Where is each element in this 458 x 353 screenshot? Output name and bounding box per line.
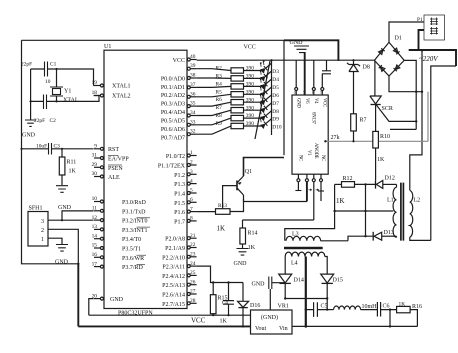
svg-text:RST: RST: [108, 147, 119, 153]
VCC label bottom: [191, 317, 206, 325]
pin 31 stub: [92, 153, 104, 160]
svg-text:R9: R9: [216, 121, 223, 127]
svg-text:P2.6/A14: P2.6/A14: [162, 293, 185, 299]
svg-text:1K: 1K: [248, 245, 256, 251]
svg-text:P0.3/AD3: P0.3/AD3: [161, 102, 185, 108]
svg-text:P2.2/A10: P2.2/A10: [162, 255, 185, 261]
resistor R15: [210, 283, 229, 325]
resistor R11: [59, 149, 76, 185]
svg-text:VCC: VCC: [173, 58, 185, 64]
wire SFH1 pin2 down: [48, 229, 80, 265]
svg-text:R4: R4: [216, 81, 223, 87]
svg-text:22pF: 22pF: [34, 118, 45, 124]
pin 19 stub: [92, 80, 104, 87]
svg-text:390: 390: [246, 74, 254, 80]
svg-text:V1: V1: [306, 150, 311, 156]
pin 26 stub: [187, 279, 196, 286]
transformer L4 secondary winding: [285, 252, 325, 266]
node crystal top junction: [55, 68, 57, 70]
svg-text:R7: R7: [360, 118, 367, 124]
pin 38 stub: [187, 73, 196, 80]
svg-text:P2.0/A8: P2.0/A8: [165, 237, 185, 243]
pin 28 stub: [187, 298, 196, 305]
svg-text:390: 390: [246, 121, 254, 127]
wire oscillator ground rail: [30, 69, 32, 120]
svg-text:P1.7: P1.7: [174, 219, 185, 225]
svg-text:Vin: Vin: [279, 326, 288, 332]
wire bridge right vertex drop: [390, 60, 417, 129]
svg-text:GND: GND: [295, 98, 300, 108]
svg-text:10: 10: [92, 196, 98, 202]
resistor R6 390: [216, 97, 255, 105]
svg-text:R11: R11: [67, 160, 77, 166]
ground opto top: [290, 40, 310, 53]
top edge thick continuation to bridge rail: [284, 40, 338, 61]
pin 4 opto stub NC: [318, 174, 324, 201]
polarity marks opto pins: [309, 189, 319, 191]
svg-text:P1.3: P1.3: [174, 182, 185, 188]
wire P0.1 row: [197, 77, 262, 79]
svg-text:1K: 1K: [217, 225, 226, 233]
svg-text:P3.2/INT0: P3.2/INT0: [122, 219, 148, 225]
pin 11 stub: [92, 206, 104, 213]
pin 34 stub: [187, 110, 196, 117]
pin 16 stub: [92, 252, 104, 259]
svg-text:19: 19: [92, 80, 98, 86]
pin 5 opto stub: [321, 74, 324, 95]
svg-text:D4: D4: [272, 77, 279, 83]
svg-text:D16: D16: [250, 303, 260, 309]
capacitor bypass at pin5: [322, 60, 331, 74]
pin 22 stub: [187, 242, 196, 249]
svg-text:10uF: 10uF: [36, 143, 47, 149]
svg-text:P1.5: P1.5: [174, 201, 185, 207]
svg-text:6N137: 6N137: [311, 112, 316, 124]
svg-text:35: 35: [190, 101, 196, 107]
pin 14 stub: [92, 233, 104, 240]
svg-text:D6: D6: [272, 93, 279, 99]
svg-text:Y1: Y1: [64, 89, 71, 95]
svg-text:R10: R10: [380, 134, 390, 140]
svg-text:R7: R7: [216, 105, 223, 111]
transformer L3 feed winding: [286, 232, 348, 241]
svg-text:31: 31: [92, 153, 98, 159]
svg-text:R3: R3: [216, 73, 223, 79]
svg-text:XTAL: XTAL: [63, 98, 79, 104]
svg-text:VCC: VCC: [191, 317, 206, 325]
resistor R7: [351, 114, 367, 142]
svg-text:22: 22: [190, 242, 196, 248]
resistor R2 390: [216, 66, 255, 74]
pin 32 stub: [187, 129, 196, 136]
resistor R9 390: [216, 121, 255, 129]
wire AC 220V rail thick: [409, 50, 456, 66]
diode D15: [321, 274, 343, 310]
node crystal bottom junction: [55, 100, 57, 102]
svg-text:ALE: ALE: [108, 175, 120, 181]
diode D12: [376, 176, 397, 189]
pin 1 stub: [187, 150, 196, 157]
capacitor C6: [377, 302, 396, 317]
wire centre tap L1: [333, 210, 393, 212]
svg-text:L2: L2: [414, 198, 421, 204]
svg-text:L1: L1: [387, 198, 394, 204]
wire L4 left to D14: [284, 257, 286, 275]
wire grey rail up link: [427, 92, 429, 142]
svg-text:1K: 1K: [220, 319, 228, 325]
pin 3 stub: [187, 169, 196, 176]
svg-text:24: 24: [190, 261, 196, 267]
wire MCU pin20 to VCC rail: [89, 299, 94, 316]
svg-text:40: 40: [190, 54, 196, 60]
svg-text:36: 36: [190, 91, 196, 97]
transistor Q1: [237, 169, 252, 195]
svg-text:R2: R2: [216, 66, 223, 72]
svg-text:8: 8: [190, 216, 193, 222]
svg-text:VCC: VCC: [244, 45, 256, 51]
svg-text:P1.4: P1.4: [174, 192, 185, 198]
wire AC live drop to transformer: [410, 49, 423, 190]
svg-text:13: 13: [92, 224, 98, 230]
pin 36 stub: [187, 91, 196, 98]
svg-text:6: 6: [190, 197, 193, 203]
svg-text:R12: R12: [343, 176, 353, 182]
svg-text:38: 38: [190, 73, 196, 79]
svg-text:P1.2: P1.2: [174, 173, 185, 179]
resistor R16: [397, 302, 422, 327]
LED D4: [257, 66, 273, 82]
wire R12 left feed: [285, 184, 335, 240]
crystal Y1: [50, 69, 79, 104]
wire P2.3 feed line: [197, 266, 243, 284]
svg-text:SFH1: SFH1: [29, 206, 43, 212]
LED D9: [257, 105, 273, 121]
svg-text:P2.3/A11: P2.3/A11: [162, 265, 185, 271]
wire opto cathode to R14: [243, 219, 314, 221]
svg-text:P1: P1: [417, 17, 423, 23]
svg-text:D9: D9: [272, 117, 279, 123]
svg-text:33: 33: [190, 119, 196, 125]
pin 10 stub: [92, 196, 104, 203]
svg-text:C1: C1: [50, 62, 57, 68]
MCU U1 P80C32 box: [104, 44, 187, 317]
wire SFH1 pin3 branch to P3.1: [62, 211, 94, 220]
pin 24 stub: [187, 261, 196, 268]
svg-text:GND: GND: [110, 297, 124, 303]
pin 13 stub: [92, 224, 104, 231]
svg-text:R5: R5: [216, 89, 223, 95]
wire VCC rail bottom: [89, 314, 250, 316]
diode D13: [348, 230, 397, 241]
svg-text:P0.0/AD0: P0.0/AD0: [161, 76, 185, 82]
svg-text:5: 5: [190, 188, 193, 194]
wire P0.7 row: [197, 126, 262, 134]
svg-text:R8: R8: [216, 113, 223, 119]
svg-text:XTAL2: XTAL2: [112, 94, 131, 100]
svg-text:L3: L3: [292, 232, 299, 238]
capacitor C2: [34, 95, 56, 125]
svg-text:GND: GND: [252, 282, 266, 288]
svg-text:28: 28: [190, 298, 196, 304]
pin 7 stub: [187, 206, 196, 213]
pin 15 stub: [92, 243, 104, 250]
load box fu-zai: [417, 15, 445, 40]
MCU right column pin name labels: [158, 58, 186, 308]
svg-text:P3.0/RxD: P3.0/RxD: [122, 200, 147, 206]
pin 37 stub: [187, 82, 196, 89]
svg-text:P1.0/T2: P1.0/T2: [166, 154, 185, 160]
transformer core bar horizontal: [284, 247, 323, 249]
svg-text:VR1: VR1: [278, 304, 289, 310]
svg-text:25: 25: [190, 270, 196, 276]
LED cathode rail: [271, 60, 273, 135]
pin 12 stub: [92, 215, 104, 222]
node C6 output: [389, 308, 391, 327]
resistor R12: [335, 176, 376, 205]
inductor L2 mains winding: [410, 190, 431, 240]
wire P0.2 row: [197, 86, 262, 87]
svg-text:V6: V6: [304, 98, 309, 104]
pin 27 stub: [187, 289, 196, 296]
svg-text:GND: GND: [234, 261, 248, 267]
svg-text:27k: 27k: [331, 135, 340, 141]
svg-text:R13: R13: [218, 203, 227, 209]
capacitor C4: [222, 283, 234, 316]
svg-text:390: 390: [246, 66, 254, 72]
svg-text:39: 39: [190, 63, 196, 69]
LED D5: [257, 74, 273, 90]
resistor R10: [373, 131, 390, 180]
svg-text:P1.6: P1.6: [174, 210, 185, 216]
svg-text:D1: D1: [395, 36, 402, 42]
pin 21 stub: [187, 233, 196, 240]
svg-text:R16: R16: [412, 304, 422, 310]
svg-text:390: 390: [246, 89, 254, 95]
svg-text:26: 26: [190, 279, 196, 285]
svg-text:V4: V4: [313, 98, 318, 104]
svg-text:P0.1/AD1: P0.1/AD1: [161, 85, 185, 91]
svg-text:D7: D7: [272, 101, 279, 107]
svg-text:29: 29: [92, 162, 98, 168]
AC source 220V label: [419, 55, 438, 63]
svg-text:NC: NC: [298, 155, 303, 161]
outer module box left and bottom-left edge: [22, 40, 79, 263]
svg-text:XTAL1: XTAL1: [112, 84, 131, 90]
svg-text:1: 1: [190, 150, 193, 156]
pin 18 stub: [92, 90, 104, 97]
wire crystal bottom branch: [31, 96, 99, 102]
ground R14: [234, 249, 249, 268]
svg-text:P3.5/T1: P3.5/T1: [122, 247, 141, 253]
pin 8 opto stub: [295, 60, 298, 95]
resistor R5 390: [216, 89, 255, 97]
LED D8: [257, 97, 273, 113]
VCC label top: [244, 45, 256, 51]
svg-text:EA/VPP: EA/VPP: [108, 157, 129, 163]
svg-text:D14: D14: [294, 278, 304, 284]
svg-text:P0.5/AD5: P0.5/AD5: [161, 119, 185, 125]
svg-text:37: 37: [190, 82, 196, 88]
resistor R7 390: [216, 105, 255, 113]
svg-text:ANODE: ANODE: [313, 143, 318, 159]
svg-text:D5: D5: [272, 85, 279, 91]
svg-text:Vout: Vout: [255, 326, 267, 332]
svg-text:1K: 1K: [399, 302, 406, 308]
svg-text:P0.4/AD4: P0.4/AD4: [161, 110, 185, 116]
svg-text:1K: 1K: [69, 169, 77, 175]
wire Q1 emitter to opto anode: [244, 195, 307, 202]
svg-text:P2.5/A13: P2.5/A13: [162, 283, 185, 289]
svg-text:2: 2: [190, 160, 193, 166]
svg-text:R14: R14: [248, 231, 258, 237]
svg-text:D8: D8: [363, 65, 370, 71]
pin 6 stub: [187, 197, 196, 204]
svg-text:D8: D8: [272, 109, 279, 115]
diode D14: [279, 274, 304, 298]
svg-text:P0.7/AD7: P0.7/AD7: [161, 135, 185, 141]
LED D3: [257, 58, 273, 74]
ground R11: [56, 186, 72, 211]
pin 6 opto stub: [312, 60, 315, 95]
pin 7 opto thick to ground: [304, 52, 306, 95]
svg-text:U1: U1: [104, 44, 111, 50]
capacitor C3: [36, 143, 60, 155]
svg-text:R6: R6: [216, 97, 223, 103]
capacitor C7 bypass: [252, 277, 286, 311]
wire bridge bottom vertex: [389, 76, 422, 92]
LED array diagonal bus: [255, 61, 270, 139]
wire L4 centre tap thick: [305, 257, 308, 328]
svg-text:D15: D15: [333, 278, 343, 284]
svg-text:C3: C3: [54, 143, 61, 149]
pin 3 opto stub cathode: [312, 174, 315, 220]
svg-text:10mH: 10mH: [362, 304, 378, 310]
wire load box thick to AC rail: [419, 30, 425, 50]
resistor R3 390: [216, 73, 255, 81]
resistor R14: [240, 220, 258, 251]
svg-text:L4: L4: [291, 261, 298, 267]
LED D7: [257, 89, 273, 105]
wire P0.5 row: [197, 110, 262, 115]
wire SFH1 pin3 to P3.2: [48, 219, 94, 221]
diode D16: [238, 283, 261, 328]
wire rectifier join: [284, 297, 328, 299]
svg-text:14: 14: [92, 233, 98, 239]
pin 8 stub: [187, 216, 196, 223]
svg-text:GND: GND: [290, 40, 304, 46]
svg-text:GND: GND: [58, 205, 72, 211]
svg-text:30: 30: [92, 171, 98, 177]
svg-text:Q1: Q1: [245, 169, 252, 175]
wire drop from R12 node: [364, 184, 366, 237]
svg-text:P0.2/AD2: P0.2/AD2: [161, 93, 185, 99]
LED D6: [257, 81, 273, 97]
overline marks active-low pins: [108, 156, 150, 265]
wire thick bottom rail: [78, 325, 250, 327]
resistor R13 base: [197, 199, 244, 233]
svg-text:4: 4: [190, 178, 193, 184]
VCC top rail wire from pin40: [197, 59, 375, 61]
pin 33 stub: [187, 119, 196, 126]
outer module box top edge: [22, 39, 285, 41]
svg-text:1K: 1K: [377, 157, 385, 163]
wire L4 right to D15: [325, 257, 327, 275]
svg-text:P2.1/A9: P2.1/A9: [165, 246, 185, 252]
svg-text:NC: NC: [320, 155, 325, 161]
svg-text:D10: D10: [272, 125, 282, 131]
svg-text:32: 32: [190, 129, 196, 135]
pin 25 stub: [187, 270, 196, 277]
svg-text:1K: 1K: [336, 197, 345, 205]
svg-text:D12: D12: [385, 176, 395, 182]
svg-text:22pF: 22pF: [21, 62, 32, 68]
svg-text:D3: D3: [272, 69, 279, 75]
connector SFH1: [28, 206, 48, 247]
capacitor C5: [305, 302, 329, 317]
svg-text:2: 2: [41, 228, 44, 234]
MCU left column pin name labels: [108, 84, 148, 304]
wire P0.6 row: [197, 118, 262, 125]
wire SCR gate: [376, 104, 418, 123]
ground SFH1: [55, 245, 69, 266]
svg-text:GND: GND: [22, 133, 36, 139]
svg-text:9: 9: [94, 144, 97, 150]
svg-text:P0.6/AD6: P0.6/AD6: [161, 127, 185, 133]
svg-text:390: 390: [246, 97, 254, 103]
svg-text:390: 390: [246, 113, 254, 119]
svg-text:3: 3: [190, 169, 193, 175]
svg-text:P3.7/RD: P3.7/RD: [122, 265, 144, 271]
svg-text:390: 390: [246, 105, 254, 111]
wire P0.0 row: [197, 69, 262, 71]
pin 30 stub: [92, 171, 104, 178]
wire crystal top branch: [31, 69, 94, 86]
svg-text:PSEN: PSEN: [108, 166, 123, 172]
wire LED rail to Q1 collector: [244, 158, 285, 177]
svg-text:D13: D13: [384, 230, 394, 236]
pin 40 stub: [187, 54, 196, 61]
pin 2 stub: [187, 160, 196, 167]
svg-text:GND: GND: [55, 260, 69, 266]
svg-text:15: 15: [92, 243, 98, 249]
svg-text:P1.1/T2EX: P1.1/T2EX: [158, 164, 186, 170]
regulator VR1: [251, 304, 293, 335]
capacitor C1: [21, 62, 57, 86]
svg-text:SCR: SCR: [382, 106, 393, 112]
optocoupler 6N137: [292, 90, 328, 174]
svg-text:3: 3: [41, 219, 44, 225]
pin 5 stub: [187, 188, 196, 195]
LED D10: [257, 113, 273, 129]
svg-text:10: 10: [45, 79, 51, 85]
svg-text:16: 16: [92, 252, 98, 258]
svg-text:27: 27: [190, 289, 196, 295]
svg-text:1: 1: [41, 237, 44, 243]
svg-text:VCC: VCC: [321, 98, 326, 107]
svg-text:C2: C2: [50, 118, 57, 124]
wire SFH1 pin1 to ground: [48, 238, 62, 244]
inductor filter 10mH: [327, 304, 377, 310]
svg-text:7: 7: [190, 206, 193, 212]
wire gate reference rail grey: [324, 140, 428, 142]
wire bottom rail right of VR1: [292, 325, 417, 327]
pin 20 stub: [92, 293, 104, 300]
resistor R8 390: [216, 113, 255, 121]
wire right box edge x284: [283, 40, 285, 155]
inductor L1 primary winding: [387, 184, 397, 237]
wire bridge top to load: [389, 22, 424, 42]
pin 29 stub: [92, 162, 104, 169]
